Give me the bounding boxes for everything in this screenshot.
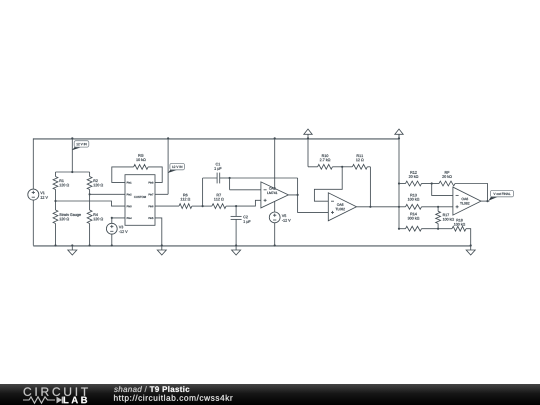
wire OA5 output to bus	[357, 206, 400, 208]
wire bridge left mid to Pin3	[56, 201, 126, 206]
capacitor C2 1uF	[231, 206, 251, 245]
wire junction up to C1	[203, 178, 218, 206]
node OA2 output	[297, 194, 299, 196]
resistor R14 300 kOhm	[399, 213, 438, 231]
ground (bridge)	[68, 244, 77, 255]
footer url	[114, 395, 232, 403]
node bus R14	[398, 228, 400, 230]
wire to OA6 plus	[438, 206, 453, 208]
footer title shanad / T9 Plastic	[114, 386, 189, 392]
node OA5 output-R11	[369, 206, 371, 208]
resistor R17 100 kOhm	[436, 207, 454, 229]
resistor R11 12 Ohm	[342, 154, 370, 169]
power flag (bus)	[395, 129, 403, 139]
wire Pin4 to V3	[111, 217, 125, 224]
resistor Strain Gauge 120 Ohm	[53, 201, 81, 246]
resistor R13 100 kOhm	[399, 194, 438, 209]
wire OA2 feedback	[230, 178, 298, 195]
resistor R10 2.7 kOhm	[308, 138, 342, 169]
voltage source V5 -12V	[269, 212, 290, 247]
op-amp U1 CUSTOM instrumentation amplifier	[125, 175, 155, 226]
wire bridge right mid to Pin2	[90, 193, 125, 195]
node R10-R11 junction	[341, 166, 343, 168]
node bridge top	[56, 137, 90, 173]
node R7-C2 junction	[235, 205, 237, 207]
node bridge left mid	[54, 200, 56, 202]
wire Pin1 loop left	[112, 167, 134, 183]
logo resistor glyph	[23, 397, 63, 404]
logo LAB	[64, 397, 87, 404]
node R6-R7 junction	[202, 205, 204, 207]
logo CIRCUIT	[24, 387, 88, 396]
op-amp OA5 TL082	[328, 193, 356, 221]
node R13-R17 junction	[437, 206, 439, 208]
wire top +12V rail	[33, 138, 399, 140]
resistor R6 112 Ohm	[155, 194, 203, 209]
resistor R12 20 kOhm	[399, 171, 432, 186]
voltage source V3 -12V	[106, 223, 127, 246]
ground (output stage)	[466, 244, 475, 255]
resistor R18 100 kOhm	[438, 219, 471, 246]
node R12-RF junction	[431, 182, 433, 184]
wire OA2 output to OA5 plus	[288, 195, 328, 213]
power flag (R10)	[304, 129, 312, 139]
footer bar	[0, 384, 540, 405]
node OA6 output-RF	[486, 200, 488, 202]
wire OA2 V+ to rail	[274, 137, 276, 188]
flag 12 V IN (bridge)	[72, 141, 89, 151]
ground (C2)	[232, 244, 241, 255]
wire rail to Pin7	[155, 137, 169, 194]
wire C1 node to OA2 minus	[230, 178, 261, 190]
wire OA5 feedback to minus	[314, 167, 342, 201]
wire summing bus	[398, 134, 400, 228]
ground (Pin5)	[157, 244, 166, 255]
flag V out FINAL	[489, 190, 514, 200]
resistor RG 10 kOhm	[134, 154, 149, 169]
op-amp OA2 LM741	[261, 182, 289, 208]
voltage source V1 12V	[28, 138, 48, 245]
node C1 right	[229, 177, 231, 179]
wire Pin5 to rail	[155, 218, 162, 246]
node bus R12	[398, 182, 400, 184]
node rail bridge bottoms	[54, 244, 90, 246]
op-amp OA6 TL082	[453, 187, 481, 215]
flag 12 V IN (Pin7)	[168, 163, 185, 173]
resistor R4 120 Ohm	[87, 194, 103, 245]
wire OA2 V- to V5	[274, 201, 276, 212]
wire RG to Pin8	[148, 167, 162, 183]
wire bottom ground rail	[33, 245, 470, 247]
wire R11 down to output	[369, 167, 371, 207]
resistor R1 120 Ohm	[53, 172, 69, 201]
resistor R2 120 Ohm	[87, 172, 103, 194]
wire R7 node to OA2 plus	[236, 200, 261, 206]
resistor RF 20 kOhm	[432, 171, 488, 201]
capacitor C1 1uF	[214, 163, 229, 184]
resistor R7 112 Ohm	[203, 194, 237, 209]
wire OA6 output	[481, 200, 489, 202]
node R14-R17-R18 junction	[437, 228, 439, 230]
node bus R13-output	[398, 206, 400, 208]
wire to OA6 minus	[432, 184, 453, 196]
node bridge right mid	[89, 193, 91, 195]
